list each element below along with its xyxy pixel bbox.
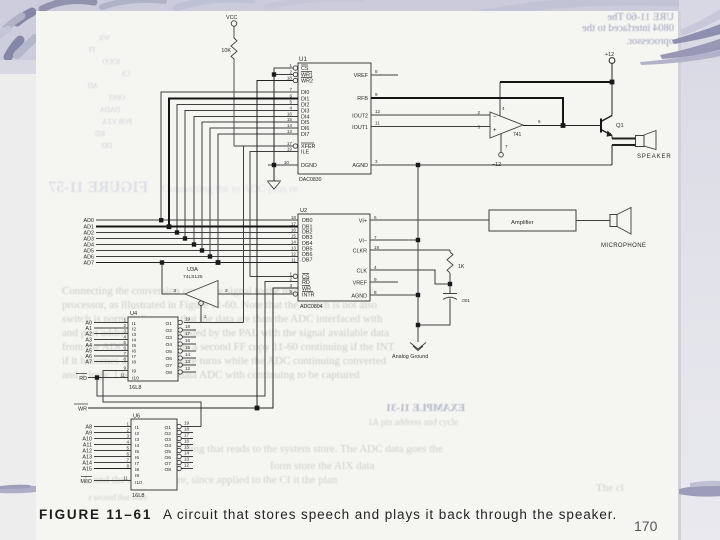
svg-text:170: 170 xyxy=(634,518,658,534)
svg-text:A circuit that stores speech a: A circuit that stores speech and plays i… xyxy=(163,507,617,522)
svg-text:FIGURE 11–61: FIGURE 11–61 xyxy=(39,507,152,522)
